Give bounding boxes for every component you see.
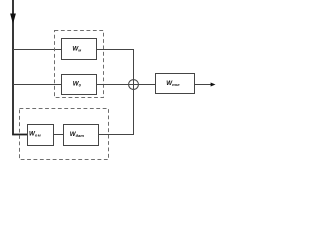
- dashed box (lower group): [20, 109, 109, 160]
- block Wm: [62, 39, 97, 60]
- wire Wom to Wdat: [54, 134, 64, 136]
- block Wpol: [156, 74, 195, 94]
- wire junction to Wpol: [139, 84, 156, 86]
- block W0: [62, 75, 97, 95]
- block Wdat: [64, 125, 99, 146]
- wire to W0: [13, 84, 62, 86]
- wire to Wm: [13, 49, 62, 51]
- input arrowhead: [10, 14, 16, 25]
- block Wom: [28, 125, 54, 146]
- wire Wm output to junction: [97, 50, 134, 80]
- output wire: [195, 84, 212, 86]
- input wire (left vertical): [12, 0, 14, 135]
- dashed box (upper group): [55, 31, 104, 98]
- output arrowhead: [211, 83, 216, 87]
- wire W0 output to junction: [97, 84, 129, 86]
- summing junction: [128, 79, 138, 89]
- wire Wdat output to junction: [99, 90, 134, 135]
- wire to Wom: [12, 134, 27, 136]
